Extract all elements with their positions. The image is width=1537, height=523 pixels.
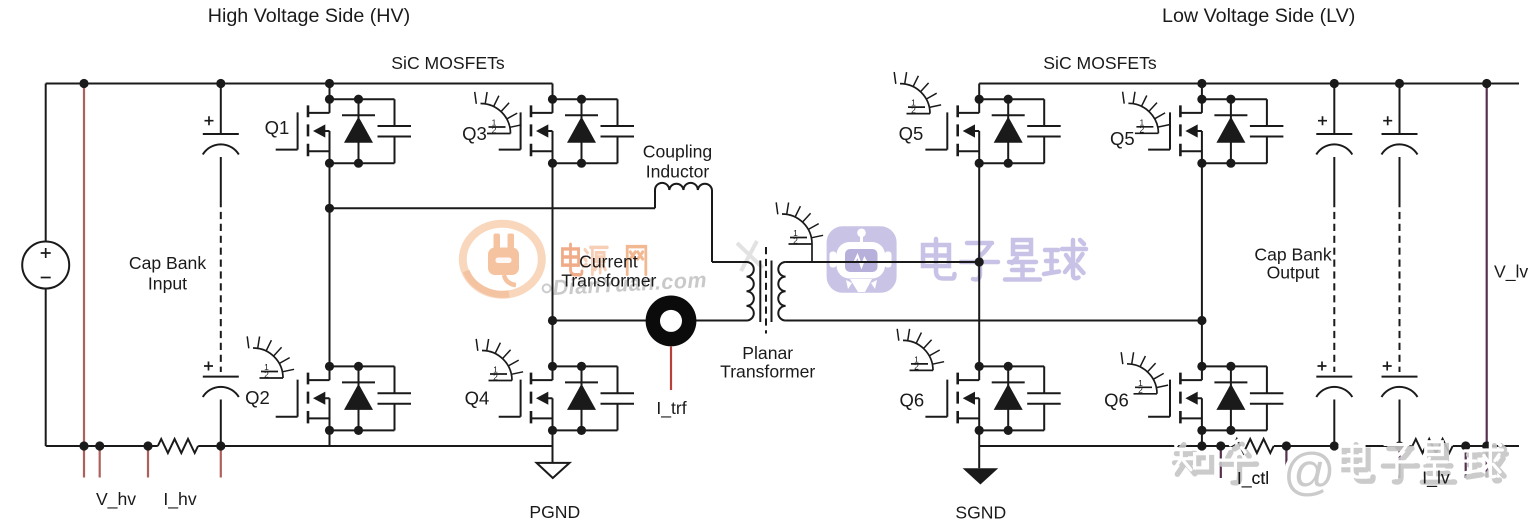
capacitor bank input leg (203, 84, 239, 447)
svg-text:Transformer: Transformer (720, 362, 815, 382)
gate gauge Q6 left (897, 329, 944, 372)
watermark dianyuan.com logo (463, 224, 542, 295)
watermark dianzixingqiu robot logo (827, 226, 897, 292)
probe gauge transformer connector (811, 244, 813, 262)
watermark dianyuanwang characters (562, 244, 645, 274)
svg-text:Low Voltage Side (LV): Low Voltage Side (LV) (1162, 5, 1355, 27)
watermark DianYuan.com (542, 268, 708, 301)
resistor I_lv (1412, 439, 1452, 453)
svg-text:Q5: Q5 (1110, 128, 1135, 149)
wire LV left bridge leg (978, 84, 980, 469)
wire LV bottom rail middle (1274, 445, 1413, 447)
svg-text:Cap Bank: Cap Bank (1254, 245, 1331, 265)
resistor I_hv (158, 439, 198, 453)
svg-text:Output: Output (1267, 263, 1320, 283)
wire HV bottom rail (46, 445, 158, 447)
svg-text:PGND: PGND (529, 502, 580, 522)
svg-text:Inductor: Inductor (646, 162, 710, 182)
watermark gray X (737, 241, 763, 271)
wire secondary top to LV left leg (786, 261, 980, 263)
svg-text:I_trf: I_trf (656, 398, 686, 419)
transistor Q1 (276, 95, 411, 168)
transistor Q3 (499, 95, 634, 168)
ground PGND (open triangle) (537, 463, 570, 478)
wire LV bottom rail right part (1453, 445, 1519, 447)
gate gauge Q5 left (894, 72, 941, 115)
gate gauge Q6 right (1121, 352, 1168, 395)
svg-text:SiC MOSFETs: SiC MOSFETs (391, 53, 505, 73)
wire inductor to transformer primary (712, 190, 747, 262)
voltage source V_dc (22, 242, 69, 289)
transistor Q6 (left) (925, 362, 1060, 435)
transistor Q5 (right) (1148, 95, 1283, 168)
wire HV left bridge leg (329, 84, 331, 447)
ground SGND (filled triangle) (963, 468, 999, 484)
watermark dianzixingqiu characters (purple) (923, 239, 1086, 280)
svg-text:Transformer: Transformer (561, 271, 656, 291)
wire HV left vertical (45, 84, 47, 447)
wire LV right bridge leg (1201, 84, 1203, 447)
svg-text:Q2: Q2 (245, 387, 270, 408)
node top rail LV (1197, 79, 1206, 88)
transistor Q4 (499, 362, 634, 435)
capacitor bank output leg 1 (1316, 84, 1352, 447)
transistor Q6 (right) (1148, 362, 1283, 435)
svg-text:Q4: Q4 (465, 388, 490, 409)
svg-text:Coupling: Coupling (643, 142, 712, 162)
svg-text:Q6: Q6 (1104, 390, 1129, 411)
svg-text:I_lv: I_lv (1422, 467, 1450, 488)
svg-text:I_hv: I_hv (163, 489, 196, 510)
node LV bridge mids (975, 257, 984, 266)
watermark zhihu attribution (white top layer) (1171, 440, 1503, 479)
watermark zhihu attribution (gray shadow layer) (1175, 444, 1507, 483)
wire HV top rail (46, 83, 553, 85)
wire LV top rail (979, 83, 1519, 85)
svg-text:Cap Bank: Cap Bank (129, 253, 206, 273)
node bottom rail HV (79, 441, 88, 450)
transistor Q2 (276, 362, 411, 435)
red probe stub 2 (99, 446, 101, 478)
svg-text:Q1: Q1 (265, 117, 290, 138)
svg-text:V_lv: V_lv (1494, 262, 1528, 283)
capacitor bank output leg 2 (1382, 84, 1418, 447)
svg-text:@: @ (1283, 443, 1336, 501)
transformer T1 core (760, 261, 771, 323)
svg-text:V_hv: V_hv (96, 489, 136, 510)
gate gauge Q4 (476, 339, 523, 382)
svg-text:Input: Input (148, 274, 187, 294)
svg-text:SGND: SGND (955, 503, 1006, 523)
svg-text:I_ctl: I_ctl (1237, 468, 1269, 489)
svg-text:Planar: Planar (742, 343, 793, 363)
transistor Q5 (left) (925, 95, 1060, 168)
node bottom rail LV (1197, 441, 1206, 450)
wire LV bottom rail (979, 445, 1233, 447)
resistor I_ctl (1233, 439, 1273, 453)
wire HV bottom rail right part (198, 445, 552, 447)
node HV bridge mids (325, 204, 334, 213)
transformer T1 secondary winding (778, 262, 785, 321)
wire HV bridge mid to coupling inductor (330, 190, 656, 208)
svg-text:SiC MOSFETs: SiC MOSFETs (1043, 53, 1157, 73)
svg-text:Q5: Q5 (899, 123, 924, 144)
red probe line V_hv bus (83, 84, 85, 478)
current transformer CT ring (646, 296, 697, 347)
svg-text:Q3: Q3 (462, 123, 487, 144)
wire HV right bridge leg (552, 84, 554, 463)
node top rail HV (79, 79, 88, 88)
red probe stub I_hv left (147, 446, 149, 478)
svg-text:High Voltage Side (HV): High Voltage Side (HV) (208, 5, 410, 27)
red probe line I_trf (670, 346, 672, 390)
gate gauge Q5 right (1123, 92, 1170, 135)
gate gauge Q3 (475, 92, 522, 135)
inductor L coupling (655, 183, 712, 190)
probe gauge transformer (776, 202, 823, 245)
svg-text:Current: Current (579, 251, 638, 271)
transformer T1 primary winding (747, 262, 754, 321)
red probe stub cap leg (220, 446, 222, 478)
plum probe stubs LV (1221, 446, 1466, 478)
wire HV right leg mid through CT to primary (553, 320, 747, 322)
plum probe line V_lv (1486, 84, 1488, 478)
wire secondary bottom to LV right leg (786, 320, 1202, 322)
gate gauge Q2 (247, 336, 294, 379)
svg-text:Q6: Q6 (899, 390, 924, 411)
